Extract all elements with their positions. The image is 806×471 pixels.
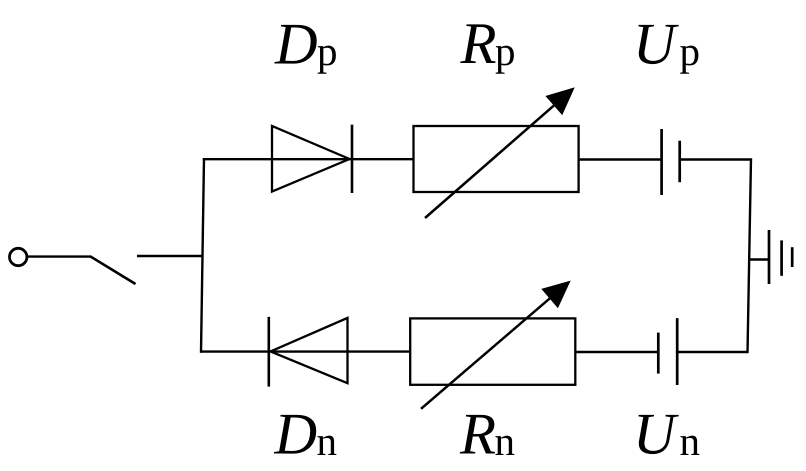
battery Un long plate: [676, 318, 679, 385]
label Rn: [460, 415, 515, 455]
label Dn: [274, 415, 337, 455]
label Un: [638, 415, 699, 455]
switch lever (open): [90, 256, 136, 284]
resistor Rn arrowhead: [542, 281, 570, 307]
label Up: [638, 25, 698, 74]
wire battery Un to right node: [678, 351, 748, 353]
resistor Rn body: [410, 318, 575, 384]
resistor Rp body: [414, 126, 579, 192]
battery Un short plate: [657, 333, 660, 374]
resistor Rp arrowhead: [546, 88, 574, 114]
ground bar 2 (medium): [780, 240, 783, 275]
wire resistor Rp to battery Up: [579, 158, 661, 160]
wire from terminal to switch pivot: [28, 255, 91, 257]
wire from switch to left node: [137, 255, 203, 257]
label Rp: [460, 24, 514, 73]
diode Dn triangle: [271, 318, 348, 383]
ground stub wire: [748, 258, 769, 260]
resistor Rp arrow shaft: [425, 105, 554, 218]
diode Dn cathode bar: [267, 317, 270, 387]
wire bottom-left node to resistor Rn (through diode): [200, 350, 411, 352]
diode Dp triangle: [272, 126, 350, 192]
battery Up long plate: [660, 129, 663, 195]
diode Dp cathode bar: [351, 125, 354, 193]
battery Up short plate: [678, 141, 681, 183]
wire resistor Rn to battery Un: [575, 351, 657, 353]
right vertical wire: [748, 158, 752, 352]
resistor Rn arrow shaft: [421, 298, 550, 409]
wire battery Up to right node: [681, 158, 751, 160]
left vertical wire: [201, 158, 204, 353]
wire top-left node to resistor Rp (through diode): [203, 158, 414, 160]
label Dp: [274, 25, 336, 74]
ground bar 1 (long): [768, 230, 771, 284]
ground bar 3 (short): [791, 247, 794, 267]
switch terminal circle: [10, 248, 27, 265]
